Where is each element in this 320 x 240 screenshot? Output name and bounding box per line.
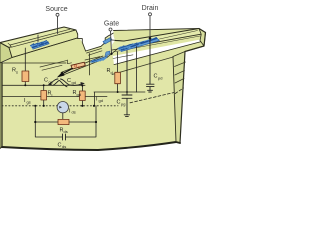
svg-text:Drain: Drain — [142, 5, 159, 12]
chip front face — [2, 57, 176, 150]
front right corner edge — [173, 57, 176, 143]
svg-text:gs: gs — [49, 80, 53, 85]
junction dots depletion line — [34, 105, 36, 107]
drain mesa front face — [112, 34, 203, 56]
source mesa bottom edge — [12, 38, 79, 58]
gate stripe — [61, 56, 105, 75]
front top edge left — [2, 62, 66, 64]
svg-text:pg: pg — [121, 102, 125, 107]
resistor R_i — [43, 85, 45, 106]
ground below C_pd — [148, 90, 153, 92]
front face layer line C — [94, 92, 145, 106]
drain pad — [118, 37, 160, 51]
gate feed piece — [105, 51, 110, 56]
svg-text:C: C — [58, 143, 62, 149]
resistor R_g — [71, 62, 85, 69]
resistor R_s — [24, 48, 26, 85]
ground below C_pg — [124, 115, 129, 117]
source pad — [30, 40, 49, 49]
right face top edge — [173, 46, 204, 57]
capacitor C_pd — [147, 38, 155, 90]
depletion dashed line right — [130, 88, 184, 103]
capacitor C_gs arrows — [50, 79, 58, 84]
gate connector — [107, 49, 118, 58]
source mesa inset line — [10, 29, 71, 47]
svg-text:C: C — [44, 78, 48, 84]
gate junction dot — [110, 53, 112, 55]
svg-text:C: C — [67, 78, 71, 84]
front top edge right — [112, 57, 173, 75]
drain wire 2 — [136, 47, 138, 93]
right face slope lines — [175, 62, 186, 83]
chip left face sliver — [0, 61, 2, 149]
svg-text:Source: Source — [45, 6, 67, 13]
recess step vertical edge — [89, 54, 91, 76]
capacitor C_pg — [122, 51, 132, 115]
capacitor C_gd arrows — [61, 79, 69, 84]
white notch between mesas — [76, 28, 114, 51]
wire R_ds / C_ds loop — [35, 106, 96, 137]
drain mesa front bottom edge — [114, 41, 203, 65]
recess front edge lines — [40, 57, 100, 71]
gate pad — [103, 38, 112, 45]
notch left edge — [76, 30, 86, 51]
gate recess steps — [86, 33, 114, 51]
svg-text:ds: ds — [62, 144, 66, 149]
source mesa left face — [0, 43, 12, 63]
drain mesa front top edge — [112, 34, 201, 50]
resistor R_gd — [81, 86, 83, 106]
svg-text:s: s — [16, 70, 18, 75]
svg-text:d: d — [111, 70, 113, 75]
resistor R_ds — [58, 119, 69, 124]
chip right side face — [173, 52, 185, 144]
chip outline — [1, 63, 3, 147]
back surface wedge — [114, 29, 200, 42]
drain mesa right end face — [199, 29, 206, 47]
svg-text:C: C — [154, 74, 158, 80]
junction dot C_pg top — [126, 91, 128, 93]
depletion dotted line — [2, 105, 118, 107]
svg-text:gd: gd — [72, 80, 76, 85]
front face layer line B — [2, 96, 107, 98]
svg-text:C: C — [117, 100, 121, 106]
capacitor C_ds — [63, 134, 66, 140]
svg-text:ds: ds — [72, 110, 76, 115]
source mesa front face — [9, 30, 79, 58]
resistor R_d — [117, 52, 119, 92]
svg-text:gd: gd — [99, 98, 103, 103]
drain mesa top inset line — [160, 31, 198, 40]
source mesa top face — [0, 27, 76, 48]
drain junction dot — [149, 37, 152, 40]
svg-text:gd: gd — [77, 92, 81, 97]
svg-text:ds: ds — [64, 129, 68, 134]
svg-text:pd: pd — [158, 76, 162, 81]
drain mesa top face — [112, 29, 203, 51]
svg-text:Gate: Gate — [104, 21, 119, 28]
junction dots rails — [24, 84, 26, 86]
junction dot R_gd top — [82, 85, 84, 87]
chip top surface band — [2, 36, 204, 75]
gate pad to mesa edge — [112, 40, 124, 41]
svg-text:i: i — [52, 93, 53, 98]
gate finger 1 — [91, 56, 107, 62]
svg-text:gs: gs — [27, 100, 31, 105]
gate finger 2 — [118, 44, 133, 49]
drain mesa back edge — [115, 29, 199, 42]
front face layer line A — [2, 84, 85, 86]
R_g lead arrow — [62, 69, 73, 75]
current source I_ds — [57, 102, 68, 113]
